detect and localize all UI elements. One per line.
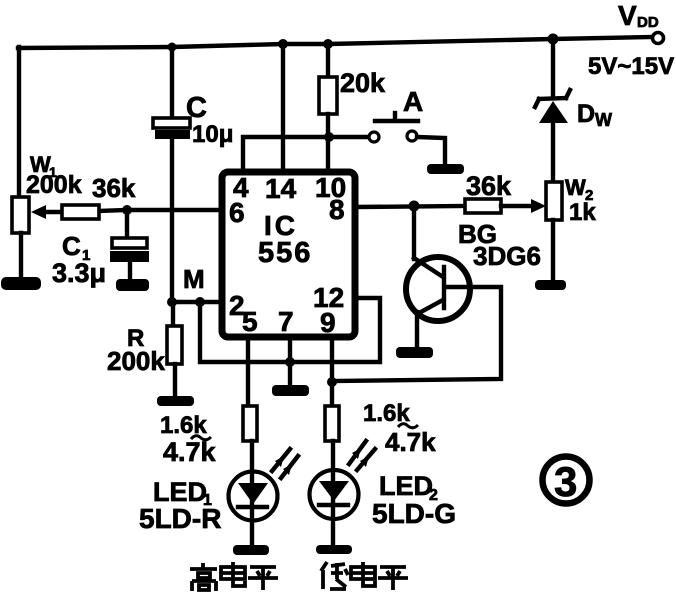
ground emitter xyxy=(396,347,433,358)
resistor R 200k xyxy=(167,326,182,364)
zener diode DW xyxy=(551,39,555,98)
svg-text:M: M xyxy=(183,264,205,294)
capacitor C1 xyxy=(112,238,147,248)
svg-text:556: 556 xyxy=(258,237,312,269)
wire switch to ground xyxy=(417,137,445,166)
wire W1 to ground xyxy=(19,233,23,278)
terminal VDD open circle xyxy=(653,33,664,44)
svg-text:DD: DD xyxy=(637,14,659,31)
transistor Q1 BG xyxy=(406,257,470,321)
ground LED2 xyxy=(316,545,352,554)
svg-text:V: V xyxy=(618,0,637,31)
ground R xyxy=(157,396,194,406)
wire base to pin 9 loop xyxy=(332,287,501,381)
potentiometer W1 xyxy=(12,197,29,233)
wire pin 9 down xyxy=(330,337,334,407)
resistor 36k right xyxy=(465,199,501,213)
svg-text:3.3μ: 3.3μ xyxy=(52,258,106,288)
wire emitter to ground xyxy=(415,312,419,349)
node junction pin2 wire xyxy=(195,297,205,307)
svg-text:7: 7 xyxy=(278,306,294,337)
wire node to C1 xyxy=(125,210,129,239)
wire pin 4 link xyxy=(243,137,329,172)
IC U1 556 box xyxy=(222,172,355,337)
svg-text:36k: 36k xyxy=(466,171,512,201)
ground LED1 xyxy=(233,545,269,555)
ground W2 xyxy=(535,280,566,290)
node junction C1 xyxy=(122,205,132,215)
svg-text:9: 9 xyxy=(320,307,336,338)
resistor 36k left xyxy=(62,205,99,219)
potentiometer W2 xyxy=(546,182,562,220)
svg-text:5: 5 xyxy=(242,306,258,337)
svg-text:8: 8 xyxy=(329,194,345,225)
wire pin 7 down xyxy=(288,337,292,386)
svg-text:5LD-R: 5LD-R xyxy=(139,503,221,534)
wire pin 10 xyxy=(326,137,330,172)
svg-text:10μ: 10μ xyxy=(192,121,233,148)
node junction 20k bottom xyxy=(324,132,334,142)
svg-text:W: W xyxy=(565,175,586,200)
node junction DW rail xyxy=(548,34,559,45)
wire 36k to node xyxy=(99,210,127,211)
wiper arrow W1 xyxy=(44,210,62,214)
switch A xyxy=(369,132,379,142)
svg-text:C: C xyxy=(62,231,81,261)
figure number 3 xyxy=(543,457,590,504)
ground W1 xyxy=(1,277,41,290)
svg-text:3DG6: 3DG6 xyxy=(473,241,541,271)
wire junction to collector xyxy=(412,206,416,259)
light arrows LED2 xyxy=(349,441,366,464)
node junction pin8 xyxy=(409,201,420,212)
node junction C top xyxy=(168,43,177,52)
wire 36k to pin 6 xyxy=(127,208,222,212)
svg-text:200k: 200k xyxy=(107,346,165,376)
svg-text:W: W xyxy=(595,110,612,130)
svg-text:LED: LED xyxy=(379,471,433,501)
svg-text:14: 14 xyxy=(265,173,297,204)
wire pin 12 loop xyxy=(200,298,380,362)
svg-text:36k: 36k xyxy=(92,173,136,203)
svg-text:1k: 1k xyxy=(569,199,596,226)
wire C bottom to M xyxy=(170,139,174,302)
svg-text:4.7k: 4.7k xyxy=(163,437,217,467)
ground switch xyxy=(427,164,464,174)
node junction 20k rail xyxy=(323,39,333,49)
wire junction to switch xyxy=(329,135,368,139)
svg-text:A: A xyxy=(403,86,423,117)
wire left rail down to W1 xyxy=(17,47,21,199)
label di-dian-ping (low level) xyxy=(321,562,408,590)
svg-text:D: D xyxy=(577,100,595,128)
svg-text:4.7k: 4.7k xyxy=(385,427,436,457)
svg-text:3: 3 xyxy=(554,458,577,505)
svg-text:C: C xyxy=(186,92,207,124)
resistor R2 LED1 xyxy=(243,406,257,441)
wire rail to C xyxy=(170,47,174,119)
svg-text:1.6k: 1.6k xyxy=(160,412,207,439)
wire pin 14 xyxy=(281,44,285,172)
label gao-dian-ping (high level) xyxy=(190,562,278,591)
ground pin7 xyxy=(272,385,309,396)
resistor R3 LED2 xyxy=(325,406,339,441)
wire DW to W2 xyxy=(551,122,555,183)
wire pin 5 down xyxy=(246,337,250,407)
LED1 xyxy=(250,441,254,546)
node junction pin14 rail xyxy=(278,39,288,49)
node M xyxy=(167,297,177,307)
svg-text:5LD-G: 5LD-G xyxy=(372,498,456,529)
light arrows LED1 xyxy=(272,449,290,471)
wire top rail xyxy=(18,37,653,48)
svg-text:200k: 200k xyxy=(26,171,82,199)
svg-text:5V~15V: 5V~15V xyxy=(588,53,674,80)
ground C1 xyxy=(116,279,149,291)
resistor 20k xyxy=(326,44,330,78)
wire M to pin 2 xyxy=(172,300,222,304)
wire pin 8 to junction xyxy=(355,206,465,207)
LED2 xyxy=(331,441,335,546)
capacitor C 10u xyxy=(153,118,190,128)
wire M down to R xyxy=(171,302,175,327)
svg-text:6: 6 xyxy=(229,197,245,228)
svg-text:20k: 20k xyxy=(340,68,386,98)
node junction pin7 xyxy=(285,357,295,367)
node junction pin9 xyxy=(327,377,337,387)
